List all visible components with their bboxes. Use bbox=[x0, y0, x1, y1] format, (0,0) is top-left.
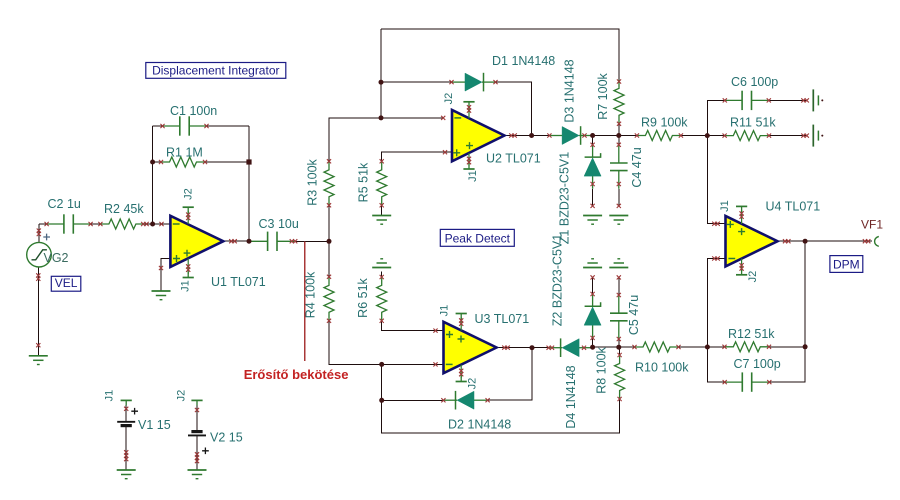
pin mark R8 bottom bbox=[618, 397, 622, 401]
svg-text:D2 1N4148: D2 1N4148 bbox=[448, 418, 511, 432]
node dot U3 output bbox=[530, 345, 535, 350]
pin marks U4 J1 bbox=[740, 211, 744, 219]
wire node B up to C6 row bbox=[707, 100, 725, 135]
pin mark U3 inverting bbox=[433, 362, 437, 366]
node dot U2 output bbox=[529, 133, 534, 138]
svg-text:R10 100k: R10 100k bbox=[635, 361, 689, 375]
svg-text:U3 TL071: U3 TL071 bbox=[475, 312, 530, 326]
svg-text:Z1 BZD23-C5V1: Z1 BZD23-C5V1 bbox=[558, 152, 572, 244]
node dot C4/R7 bbox=[616, 133, 621, 138]
pin marks VF1 bbox=[863, 239, 871, 243]
wire C4 top lead bbox=[618, 136, 620, 145]
svg-text:C3 10u: C3 10u bbox=[259, 217, 299, 231]
ground under V2 bbox=[188, 470, 207, 479]
resistor R8 bbox=[615, 355, 625, 399]
wire R2 to U1 inverting input bbox=[144, 223, 170, 225]
pin marks U3 J1 bbox=[459, 318, 463, 326]
pin mark D2 left bbox=[441, 398, 445, 402]
diode D1 bbox=[452, 73, 496, 92]
ground under VG2 bbox=[29, 356, 48, 365]
U3 pin J2 lead bbox=[460, 365, 462, 378]
wire R7 bottom to node A bbox=[618, 124, 620, 136]
pin mark R11 terminal bbox=[801, 134, 809, 138]
pin mark U1 ground bbox=[159, 266, 163, 270]
flipped ground above R6 bbox=[372, 259, 391, 268]
resistor R12 bbox=[725, 342, 769, 352]
svg-text:C4 47u: C4 47u bbox=[630, 147, 644, 187]
pin mark R9 right bbox=[679, 133, 683, 137]
pin mark U2 inverting bbox=[441, 116, 445, 120]
svg-text:R2 45k: R2 45k bbox=[104, 202, 144, 216]
pin mark R12 right bbox=[767, 345, 771, 349]
svg-text:R5 51k: R5 51k bbox=[357, 162, 371, 202]
pin mark D1 left bbox=[449, 80, 453, 84]
wire feedback left vertical bbox=[152, 126, 154, 224]
wire R11 to terminal bbox=[769, 135, 807, 137]
wire V2 jumper to battery bbox=[196, 405, 198, 430]
V1 polarity plus bbox=[131, 408, 138, 415]
resistor R9 bbox=[637, 131, 681, 141]
svg-text:Erősítő bekötése: Erősítő bekötése bbox=[244, 367, 349, 382]
pin mark C4 ground bbox=[617, 204, 621, 208]
pin mark Z1 top bbox=[591, 143, 595, 147]
U2 inverting mark bbox=[454, 117, 461, 119]
wire D4 node to C5 node bbox=[593, 346, 619, 348]
svg-text:J2: J2 bbox=[176, 390, 188, 402]
pin mark Z2 top bbox=[591, 292, 595, 296]
svg-text:J1: J1 bbox=[439, 305, 451, 317]
wire VG2 top lead bbox=[38, 224, 40, 242]
svg-text:R1 1M: R1 1M bbox=[166, 146, 203, 160]
title box Peak Detect bbox=[440, 229, 514, 246]
wire V2 battery to ground bbox=[196, 436, 198, 470]
flipped ground above C5 bbox=[609, 259, 628, 268]
pin mark U1 inverting bbox=[159, 222, 163, 226]
wire node B to R11 bbox=[707, 135, 724, 137]
wire C3 to node R3/R4 bbox=[294, 240, 329, 242]
pin mark D4 right bbox=[582, 346, 586, 350]
wire R1 right link bbox=[205, 161, 249, 163]
pin mark R1 right bbox=[203, 160, 207, 164]
resistor R1 bbox=[161, 157, 205, 167]
wire R4 bottom to U3 inverting input bbox=[329, 321, 444, 365]
node dot U1 output bbox=[247, 239, 252, 244]
U4 non-inverting mark bbox=[727, 221, 745, 235]
pin marks C3 right bbox=[290, 239, 298, 243]
node dot C3/R3/R4 bbox=[327, 239, 332, 244]
wire node B down to U4 non-inverting input bbox=[707, 136, 725, 224]
pin marks VG2 top bbox=[37, 229, 41, 237]
svg-text:U1 TL071: U1 TL071 bbox=[211, 275, 266, 289]
U4 pin J1 lead bbox=[741, 210, 743, 224]
wire C1 right lead row bbox=[207, 125, 250, 127]
pin mark C7 left bbox=[723, 380, 727, 384]
ground under V1 bbox=[117, 470, 136, 479]
pin marks C2 right bbox=[89, 222, 93, 226]
svg-text:Peak Detect: Peak Detect bbox=[445, 231, 511, 245]
pin marks U3 J2 bbox=[459, 369, 463, 377]
pin mark R10 right bbox=[676, 345, 680, 349]
wire U1 output to C3 bbox=[223, 240, 250, 242]
zener Z2 bbox=[584, 294, 601, 338]
wire U4 output to VF1 bbox=[778, 240, 873, 242]
U2 pin J1 lead bbox=[468, 153, 470, 166]
wire Z2 top to flipped ground bbox=[592, 277, 594, 294]
U3 non-inverting mark bbox=[446, 331, 465, 343]
label box DPM bbox=[830, 256, 863, 273]
wire C7 left to feedback node bbox=[707, 347, 724, 382]
capacitor C3 bbox=[250, 232, 294, 251]
pin mark C4 bottom bbox=[617, 182, 621, 186]
pin marks U2 output bbox=[509, 133, 517, 137]
U1 pin J2 lead bbox=[187, 211, 189, 224]
pin mark U2 non-inverting bbox=[443, 150, 447, 154]
wire feedback node to U4 inverting input bbox=[707, 259, 725, 348]
U2 pin J2 lead bbox=[468, 106, 470, 119]
op-amp U1 bbox=[170, 216, 223, 267]
svg-text:C7 100p: C7 100p bbox=[734, 357, 781, 371]
pin mark C1 right bbox=[204, 124, 208, 128]
wire feedback right vertical bbox=[248, 126, 250, 241]
flipped ground above Z2 bbox=[583, 259, 602, 268]
pin mark R11 left bbox=[723, 134, 727, 138]
pin marks U4 non-inverting bbox=[712, 222, 720, 226]
wire node to R4 top bbox=[328, 241, 330, 276]
svg-text:R4 100k: R4 100k bbox=[304, 271, 318, 318]
svg-text:V1 15: V1 15 bbox=[138, 418, 171, 432]
pin mark Z2 ground bbox=[591, 275, 595, 279]
U2 jumper pin J1 bbox=[463, 163, 474, 169]
wire U3 output to D4 bbox=[497, 347, 549, 349]
battery V2 bbox=[188, 432, 206, 436]
pin mark D1 right bbox=[493, 80, 497, 84]
pin mark R6 top bbox=[380, 275, 384, 279]
pin marks R2 left bbox=[98, 222, 102, 226]
pin mark C6 terminal bbox=[801, 98, 809, 102]
pin marks U4 inverting bbox=[712, 256, 720, 260]
wire C6 to terminal bbox=[769, 99, 807, 101]
pin marks VG2 bottom bbox=[36, 273, 40, 281]
wire C2 to R2 bbox=[91, 223, 101, 225]
wire C1 left lead row bbox=[153, 125, 163, 127]
svg-text:C2 1u: C2 1u bbox=[48, 197, 81, 211]
U3 inverting mark bbox=[446, 363, 453, 365]
U1 jumper pin J2 bbox=[183, 207, 194, 213]
svg-text:R6 51k: R6 51k bbox=[356, 277, 370, 317]
pin mark R3 top bbox=[327, 159, 331, 163]
resistor R11 bbox=[725, 131, 769, 141]
V2 polarity plus bbox=[202, 448, 209, 455]
node square R1/C1 right bbox=[246, 159, 251, 164]
svg-text:R11 51k: R11 51k bbox=[730, 116, 776, 130]
resistor R3 bbox=[324, 161, 334, 205]
pin marks R2 right bbox=[141, 222, 149, 226]
pin mark Z1 bottom bbox=[591, 182, 595, 186]
wire V1 jumper to battery bbox=[125, 405, 127, 421]
svg-text:D3 1N4148: D3 1N4148 bbox=[563, 59, 577, 122]
node dot U4 output bbox=[803, 239, 808, 244]
wire V1 battery to ground bbox=[125, 427, 127, 470]
pin mark R3 bottom bbox=[327, 203, 331, 207]
wire U2 output to D3 bbox=[504, 135, 548, 137]
pin marks U1 J2 bbox=[186, 213, 190, 221]
pin mark R11 right bbox=[767, 134, 771, 138]
op-amp U4 bbox=[726, 216, 778, 266]
pin marks U2 J2 bbox=[467, 105, 471, 113]
pin mark D2 right bbox=[486, 398, 490, 402]
wire R6 top to flipped ground bbox=[381, 272, 383, 277]
U4 jumper pin J2 bbox=[736, 269, 747, 275]
svg-text:U2 TL071: U2 TL071 bbox=[486, 152, 541, 166]
pin marks C2 left bbox=[45, 222, 49, 226]
wire R12 to output node column bbox=[769, 346, 805, 348]
node dot D2/loop bbox=[379, 398, 384, 403]
pin mark C7 right bbox=[767, 380, 771, 384]
pin mark U3 non-inverting bbox=[433, 329, 437, 333]
op-amp U2 bbox=[452, 110, 504, 161]
diode D2 bbox=[444, 391, 488, 410]
pin marks V1 bottom bbox=[124, 450, 128, 461]
svg-text:Displacement Integrator: Displacement Integrator bbox=[152, 63, 279, 77]
node dot Z2/D4 bbox=[590, 345, 595, 350]
U3 jumper pin J2 bbox=[456, 376, 467, 382]
svg-text:C6 100p: C6 100p bbox=[731, 75, 778, 89]
U1 inverting mark bbox=[173, 223, 180, 225]
pin mark R5 bottom bbox=[380, 203, 384, 207]
resistor R7 bbox=[614, 80, 624, 124]
diode D3 bbox=[549, 126, 593, 145]
wire top feedback loop bbox=[381, 29, 619, 80]
resistor R5 bbox=[377, 161, 387, 205]
wire feedback node to R12 bbox=[707, 346, 724, 348]
U4 inverting mark bbox=[728, 258, 735, 260]
pin marks U4 J2 bbox=[740, 263, 744, 271]
pin mark R9 left bbox=[635, 133, 639, 137]
wire R3 top to U2 inverting node bbox=[329, 118, 444, 161]
pin mark C6 right bbox=[767, 98, 771, 102]
U3 pin J1 lead bbox=[460, 317, 462, 330]
pin mark R4 top bbox=[327, 275, 331, 279]
pin mark R7 top bbox=[617, 79, 621, 83]
pin marks V2 bottom bbox=[195, 452, 199, 463]
pin marks U2 J1 bbox=[467, 157, 471, 165]
svg-text:C5 47u: C5 47u bbox=[627, 295, 641, 335]
svg-text:VF1: VF1 bbox=[861, 218, 883, 232]
wire Z1 bottom to ground bbox=[592, 189, 594, 207]
resistor R4 bbox=[324, 277, 334, 321]
svg-text:J1: J1 bbox=[104, 390, 116, 402]
svg-text:J2: J2 bbox=[183, 188, 195, 200]
node dot D1 row bbox=[379, 80, 384, 85]
U3 jumper pin J1 bbox=[456, 314, 467, 320]
svg-text:J2: J2 bbox=[747, 271, 759, 283]
svg-text:J1: J1 bbox=[719, 200, 731, 212]
pin mark R12 left bbox=[722, 345, 726, 349]
wire R8 top lead bbox=[619, 347, 621, 355]
node dot signal/feedback left bbox=[150, 222, 155, 227]
node dot R4/U3 inverting bbox=[379, 362, 384, 367]
terminal at C6 right bbox=[813, 89, 823, 111]
wire R1 left link bbox=[153, 161, 161, 163]
svg-text:VEL: VEL bbox=[55, 276, 78, 290]
wire R5 top to U2 non-inverting input bbox=[382, 152, 452, 161]
wire D1 left lead bbox=[381, 81, 452, 83]
wire C4 bottom to ground bbox=[618, 189, 620, 207]
U1 non-inverting mark bbox=[173, 250, 190, 262]
op-amp U3 bbox=[444, 322, 497, 373]
voltage source VG2 bbox=[27, 242, 52, 267]
wire input node to C2 bbox=[39, 223, 47, 225]
wire VG2 bottom to ground bbox=[37, 267, 39, 356]
pin mark VG2 ground bbox=[36, 343, 40, 347]
wire node to R3 bottom bbox=[328, 205, 330, 241]
svg-text:D4 1N4148: D4 1N4148 bbox=[564, 365, 578, 428]
pin marks U4 output bbox=[783, 239, 791, 243]
wire C5 top to flipped ground bbox=[618, 277, 620, 295]
pin mark Z2 bottom bbox=[591, 336, 595, 340]
wire C5 bottom lead bbox=[618, 339, 620, 347]
capacitor C2 bbox=[47, 214, 91, 233]
wire D2 right to U3 output bbox=[488, 348, 532, 401]
node dot R12/C7 right bbox=[803, 344, 808, 349]
node dot feedback U4 bbox=[705, 345, 710, 350]
svg-text:C1 100n: C1 100n bbox=[170, 104, 217, 118]
jumper J2 above V2 bbox=[191, 400, 202, 405]
output terminal VF1 hook bbox=[875, 236, 879, 246]
node dot R1/C1 left bbox=[150, 160, 155, 165]
capacitor C4 bbox=[610, 145, 628, 189]
pin mark R5 top bbox=[380, 159, 384, 163]
capacitor C1 bbox=[163, 116, 207, 135]
diode D4 bbox=[549, 338, 593, 357]
terminal at R11 right bbox=[813, 125, 823, 147]
U4 pin J2 lead bbox=[741, 259, 743, 272]
pin marks D4 left bbox=[547, 346, 555, 350]
wire output node down to R12/C7 bbox=[769, 241, 805, 382]
label box VEL bbox=[51, 276, 81, 291]
resistor R6 bbox=[377, 277, 387, 321]
battery V1 bbox=[117, 422, 135, 426]
resistor R10 bbox=[635, 342, 679, 352]
wire highlighted red (amplifier connection) bbox=[304, 241, 306, 361]
capacitor C6 bbox=[725, 91, 769, 110]
svg-text:R9 100k: R9 100k bbox=[641, 116, 688, 130]
wire R6 bottom to U3 non-inverting input bbox=[382, 321, 444, 331]
pin mark C4 top bbox=[617, 143, 621, 147]
svg-text:Z2 BZD23-C5V1: Z2 BZD23-C5V1 bbox=[551, 234, 565, 326]
wire R5 bottom to ground bbox=[381, 205, 383, 215]
pin mark R8 top bbox=[618, 353, 622, 357]
svg-text:J1: J1 bbox=[467, 170, 479, 182]
resistor R2 bbox=[100, 219, 144, 229]
svg-text:DPM: DPM bbox=[833, 257, 860, 271]
capacitor C7 bbox=[725, 372, 769, 391]
zener Z1 bbox=[584, 145, 601, 189]
svg-text:R8 100k: R8 100k bbox=[595, 346, 609, 393]
svg-text:R12 51k: R12 51k bbox=[728, 327, 775, 341]
pin mark C6 left bbox=[723, 98, 727, 102]
node dot B R9/R11/C6 bbox=[705, 133, 710, 138]
ground under Z1 bbox=[583, 216, 602, 225]
wire C5/R8 node to R10 bbox=[619, 346, 635, 348]
VG2 polarity plus bbox=[43, 234, 50, 241]
jumper J1 above V1 bbox=[121, 400, 132, 405]
wire Z2 bottom lead bbox=[592, 338, 594, 347]
U1 jumper pin J1 bbox=[183, 272, 194, 278]
pin mark C1 left bbox=[160, 124, 164, 128]
U4 jumper pin J1 bbox=[736, 206, 747, 212]
wire R9 to node B bbox=[681, 135, 707, 137]
pin mark Z1 ground bbox=[591, 204, 595, 208]
pin mark R1 left bbox=[159, 160, 163, 164]
pin marks U3 output bbox=[502, 346, 510, 350]
wire R8 bottom to bottom loop bbox=[382, 364, 620, 433]
svg-text:VG2: VG2 bbox=[44, 251, 69, 265]
svg-text:R3 100k: R3 100k bbox=[306, 158, 320, 205]
pin marks U1 output bbox=[229, 239, 237, 243]
capacitor C5 bbox=[610, 295, 628, 339]
svg-text:V2 15: V2 15 bbox=[210, 431, 243, 445]
pin mark V1 top bbox=[124, 407, 128, 411]
wire Z1 top lead bbox=[592, 136, 594, 145]
node dot Z1 bbox=[590, 133, 595, 138]
pin mark C5 top bbox=[617, 293, 621, 297]
ground under C4 bbox=[609, 216, 628, 225]
pin mark D3 right bbox=[582, 133, 586, 137]
svg-text:R7 100k: R7 100k bbox=[596, 72, 610, 119]
U2 jumper pin J2 bbox=[463, 102, 474, 108]
U2 non-inverting mark bbox=[453, 142, 473, 156]
pin mark R4 bottom bbox=[327, 319, 331, 323]
node dot C5/R8 bbox=[616, 345, 621, 350]
U1 pin J1 lead bbox=[187, 259, 189, 275]
wire U1 non-inverting input to ground bbox=[161, 259, 170, 291]
pin mark C5 bottom bbox=[617, 337, 621, 341]
pin mark C5 ground bbox=[617, 275, 621, 279]
pin mark R10 left bbox=[632, 345, 636, 349]
pin mark V2 top bbox=[195, 408, 199, 412]
wire R10 to feedback node bbox=[679, 346, 708, 348]
svg-text:J2: J2 bbox=[443, 93, 455, 105]
svg-text:D1 1N4148: D1 1N4148 bbox=[492, 54, 555, 68]
pin marks U1 J1 bbox=[186, 264, 190, 272]
title box Displacement Integrator bbox=[146, 63, 286, 79]
svg-text:U4 TL071: U4 TL071 bbox=[766, 200, 821, 214]
wire U2 inverting node vertical bbox=[380, 29, 382, 118]
ground at U1 non-inverting input bbox=[152, 291, 171, 300]
ground under R5 bbox=[372, 216, 391, 225]
svg-text:J2: J2 bbox=[467, 378, 479, 390]
pin mark R6 bottom bbox=[380, 319, 384, 323]
node dot U2 inverting bbox=[379, 115, 384, 120]
pin mark D3 left bbox=[547, 133, 551, 137]
wire node A to R9 bbox=[593, 135, 637, 137]
wire D1 right to U2 output bbox=[496, 82, 532, 135]
svg-text:J1: J1 bbox=[180, 280, 192, 292]
wire D2 left lead to loop node bbox=[382, 399, 444, 401]
pin mark R7 bottom bbox=[617, 122, 621, 126]
